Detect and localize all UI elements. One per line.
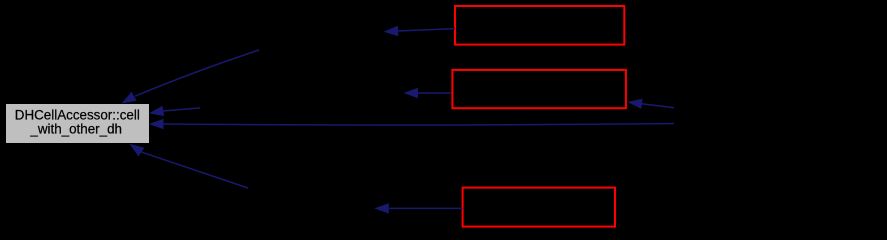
edge into grey box from far right [149,119,674,129]
svg-text:_with_other_dh: _with_other_dh [29,121,122,136]
edge from node2 to top red box [384,26,455,36]
edge into grey box upper right [149,106,200,116]
node DHCellAccessor::cell_with_other_dh (current node, grey) [6,104,149,143]
top red node box [455,6,624,45]
middle red node box [452,70,626,108]
edge from far node to middle red box [628,99,675,109]
edge from node4 to bottom red box [374,203,462,213]
edge into grey box bottom [130,144,249,188]
svg-text:DHCellAccessor::cell: DHCellAccessor::cell [15,107,140,122]
edge from node3 to middle red box [404,88,452,98]
bottom red node box [463,188,615,227]
curved edge into grey box top [122,50,260,104]
